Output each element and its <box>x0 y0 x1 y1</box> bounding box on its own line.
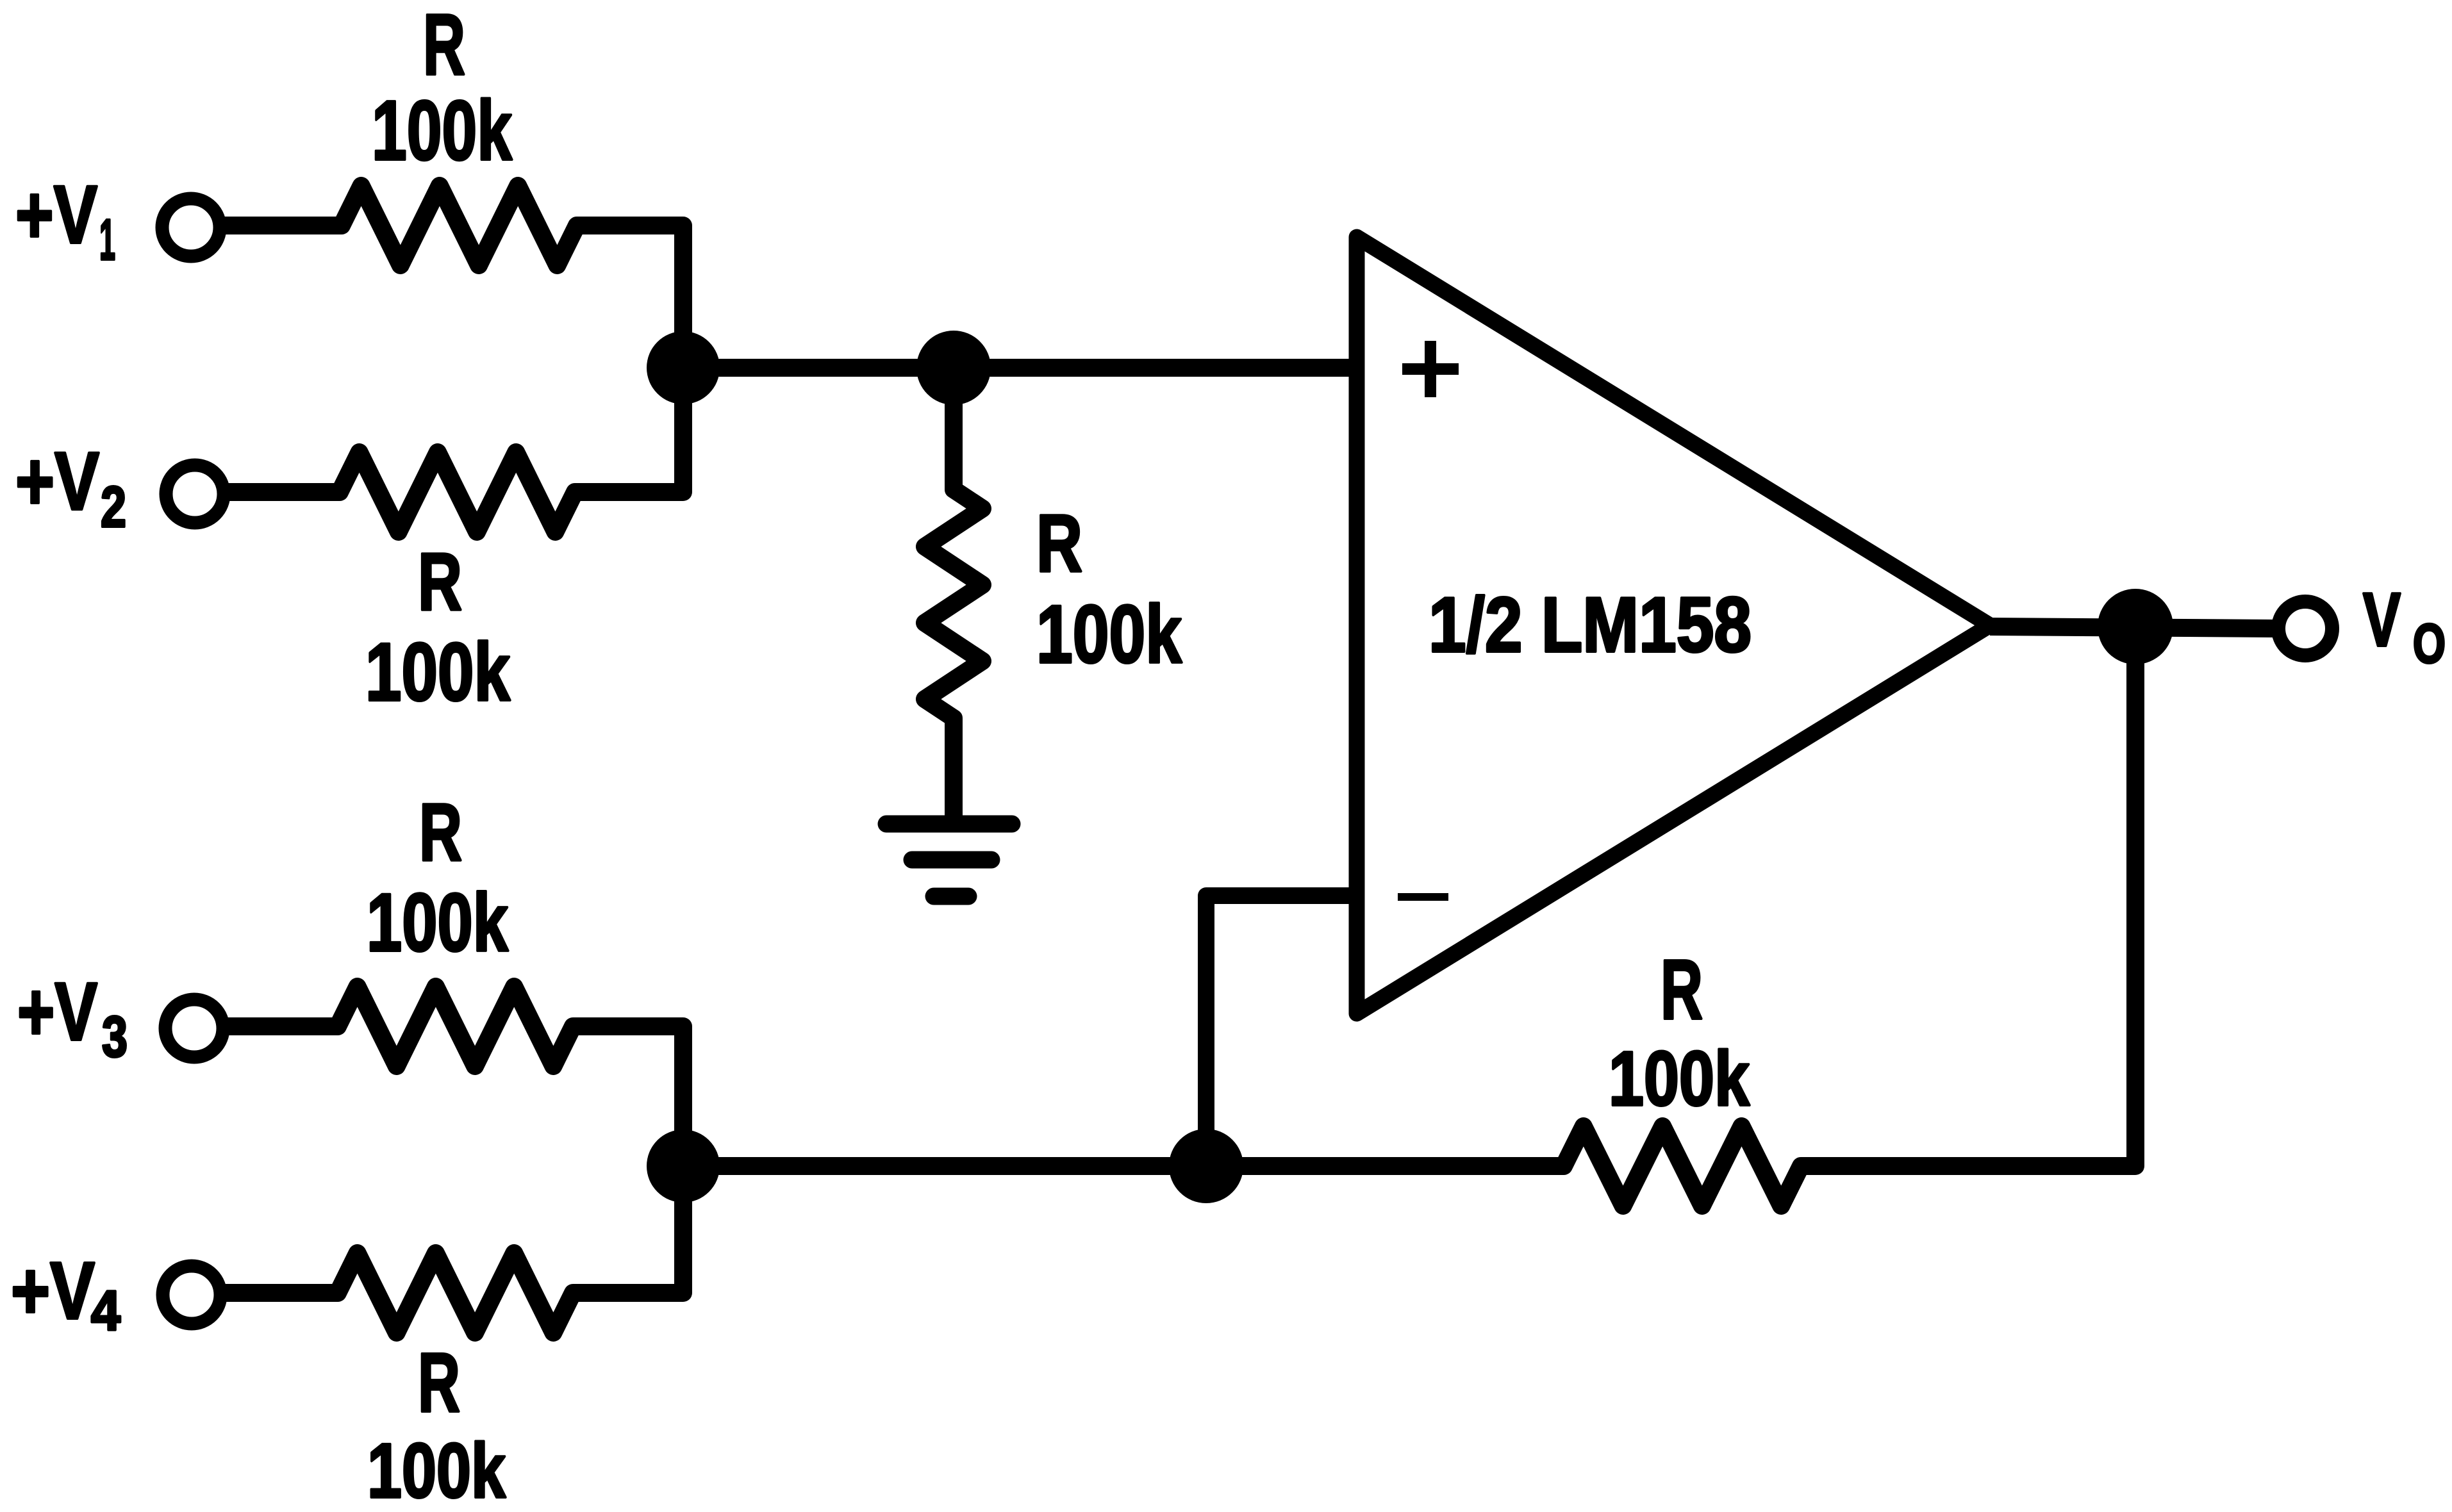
op-amp noninverting + marker <box>1402 341 1459 397</box>
svg-text:+V: +V <box>15 169 97 261</box>
svg-text:R: R <box>419 787 462 878</box>
svg-text:3: 3 <box>102 1005 128 1069</box>
resistor R 100k feedback <box>1206 627 2135 1206</box>
svg-text:1: 1 <box>99 208 115 272</box>
svg-text:1/2 LM158: 1/2 LM158 <box>1429 581 1752 668</box>
svg-text:4: 4 <box>91 1279 120 1342</box>
wire: node C to node D <box>683 1157 1206 1175</box>
wire: node D to op-amp inverting input <box>1206 896 1357 1166</box>
resistor R 100k (+V4 input) <box>220 1166 683 1333</box>
wire: node A to node B <box>683 359 954 377</box>
resistor R 100k (+V2 input) <box>223 368 683 532</box>
svg-text:O: O <box>2413 613 2446 675</box>
svg-text:R: R <box>418 536 462 627</box>
svg-text:+V: +V <box>17 966 97 1058</box>
svg-text:2: 2 <box>101 475 126 539</box>
terminal +V2 <box>166 465 224 523</box>
svg-text:R: R <box>418 1335 460 1429</box>
svg-text:100k: 100k <box>1036 589 1182 680</box>
op-amp U1 1/2 LM158 <box>1357 237 1990 1014</box>
node C junction (V3,V4 summing) <box>647 1130 720 1203</box>
node B junction (ground resistor tap) <box>916 331 991 405</box>
svg-text:100k: 100k <box>1609 1035 1750 1122</box>
svg-text:100k: 100k <box>372 83 512 177</box>
svg-text:100k: 100k <box>365 627 511 718</box>
terminal +V4 <box>163 1266 220 1324</box>
resistor R 100k (+V1 input) <box>219 186 683 368</box>
terminal Vo <box>2278 602 2332 655</box>
wire: op-amp output to Vo terminal <box>1990 627 2276 629</box>
terminal +V1 <box>162 199 220 256</box>
svg-text:R: R <box>1036 498 1082 589</box>
resistor R 100k to ground <box>925 368 982 824</box>
terminal +V3 <box>165 999 223 1057</box>
svg-text:+V: +V <box>15 436 99 527</box>
svg-text:V: V <box>2363 577 2401 662</box>
svg-text:R: R <box>1661 942 1703 1037</box>
wire: node B to op-amp noninverting input <box>954 359 1357 377</box>
svg-text:R: R <box>423 0 465 93</box>
node A junction (V1,V2 summing) <box>647 331 720 404</box>
svg-text:100k: 100k <box>367 1427 506 1512</box>
svg-text:+V: +V <box>11 1245 95 1336</box>
node D junction (inverting node) <box>1169 1129 1243 1203</box>
svg-text:100k: 100k <box>367 877 509 969</box>
ground <box>886 824 1012 896</box>
resistor R 100k (+V3 input) <box>222 987 683 1166</box>
op-amp inverting - marker <box>1398 893 1448 901</box>
output node junction <box>2098 589 2173 664</box>
